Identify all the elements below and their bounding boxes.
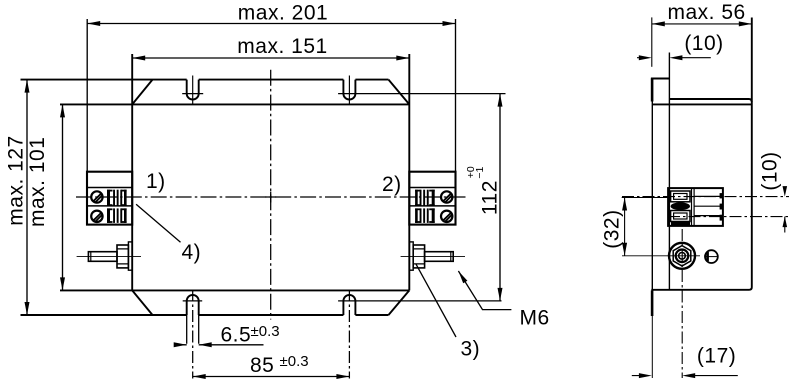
svg-text:±0.3: ±0.3: [280, 353, 309, 370]
svg-text:85: 85: [250, 354, 274, 377]
svg-text:112: 112: [478, 180, 501, 215]
svg-text:6.5: 6.5: [221, 324, 252, 347]
svg-text:max. 56: max. 56: [667, 1, 745, 24]
svg-text:4): 4): [182, 241, 202, 264]
svg-text:max. 151: max. 151: [237, 35, 327, 58]
svg-text:max. 127: max. 127: [5, 135, 28, 225]
svg-text:1): 1): [146, 170, 166, 193]
svg-text:±0.3: ±0.3: [251, 323, 280, 340]
svg-text:(10): (10): [684, 32, 723, 55]
svg-text:2): 2): [382, 173, 402, 196]
svg-text:(10): (10): [758, 151, 781, 190]
svg-text:max. 201: max. 201: [238, 2, 328, 25]
svg-text:−1: −1: [474, 167, 486, 179]
svg-text:3): 3): [461, 338, 481, 361]
svg-text:(17): (17): [697, 345, 736, 368]
svg-text:M6: M6: [520, 306, 550, 329]
svg-text:(32): (32): [601, 209, 624, 248]
svg-text:max. 101: max. 101: [26, 137, 49, 227]
